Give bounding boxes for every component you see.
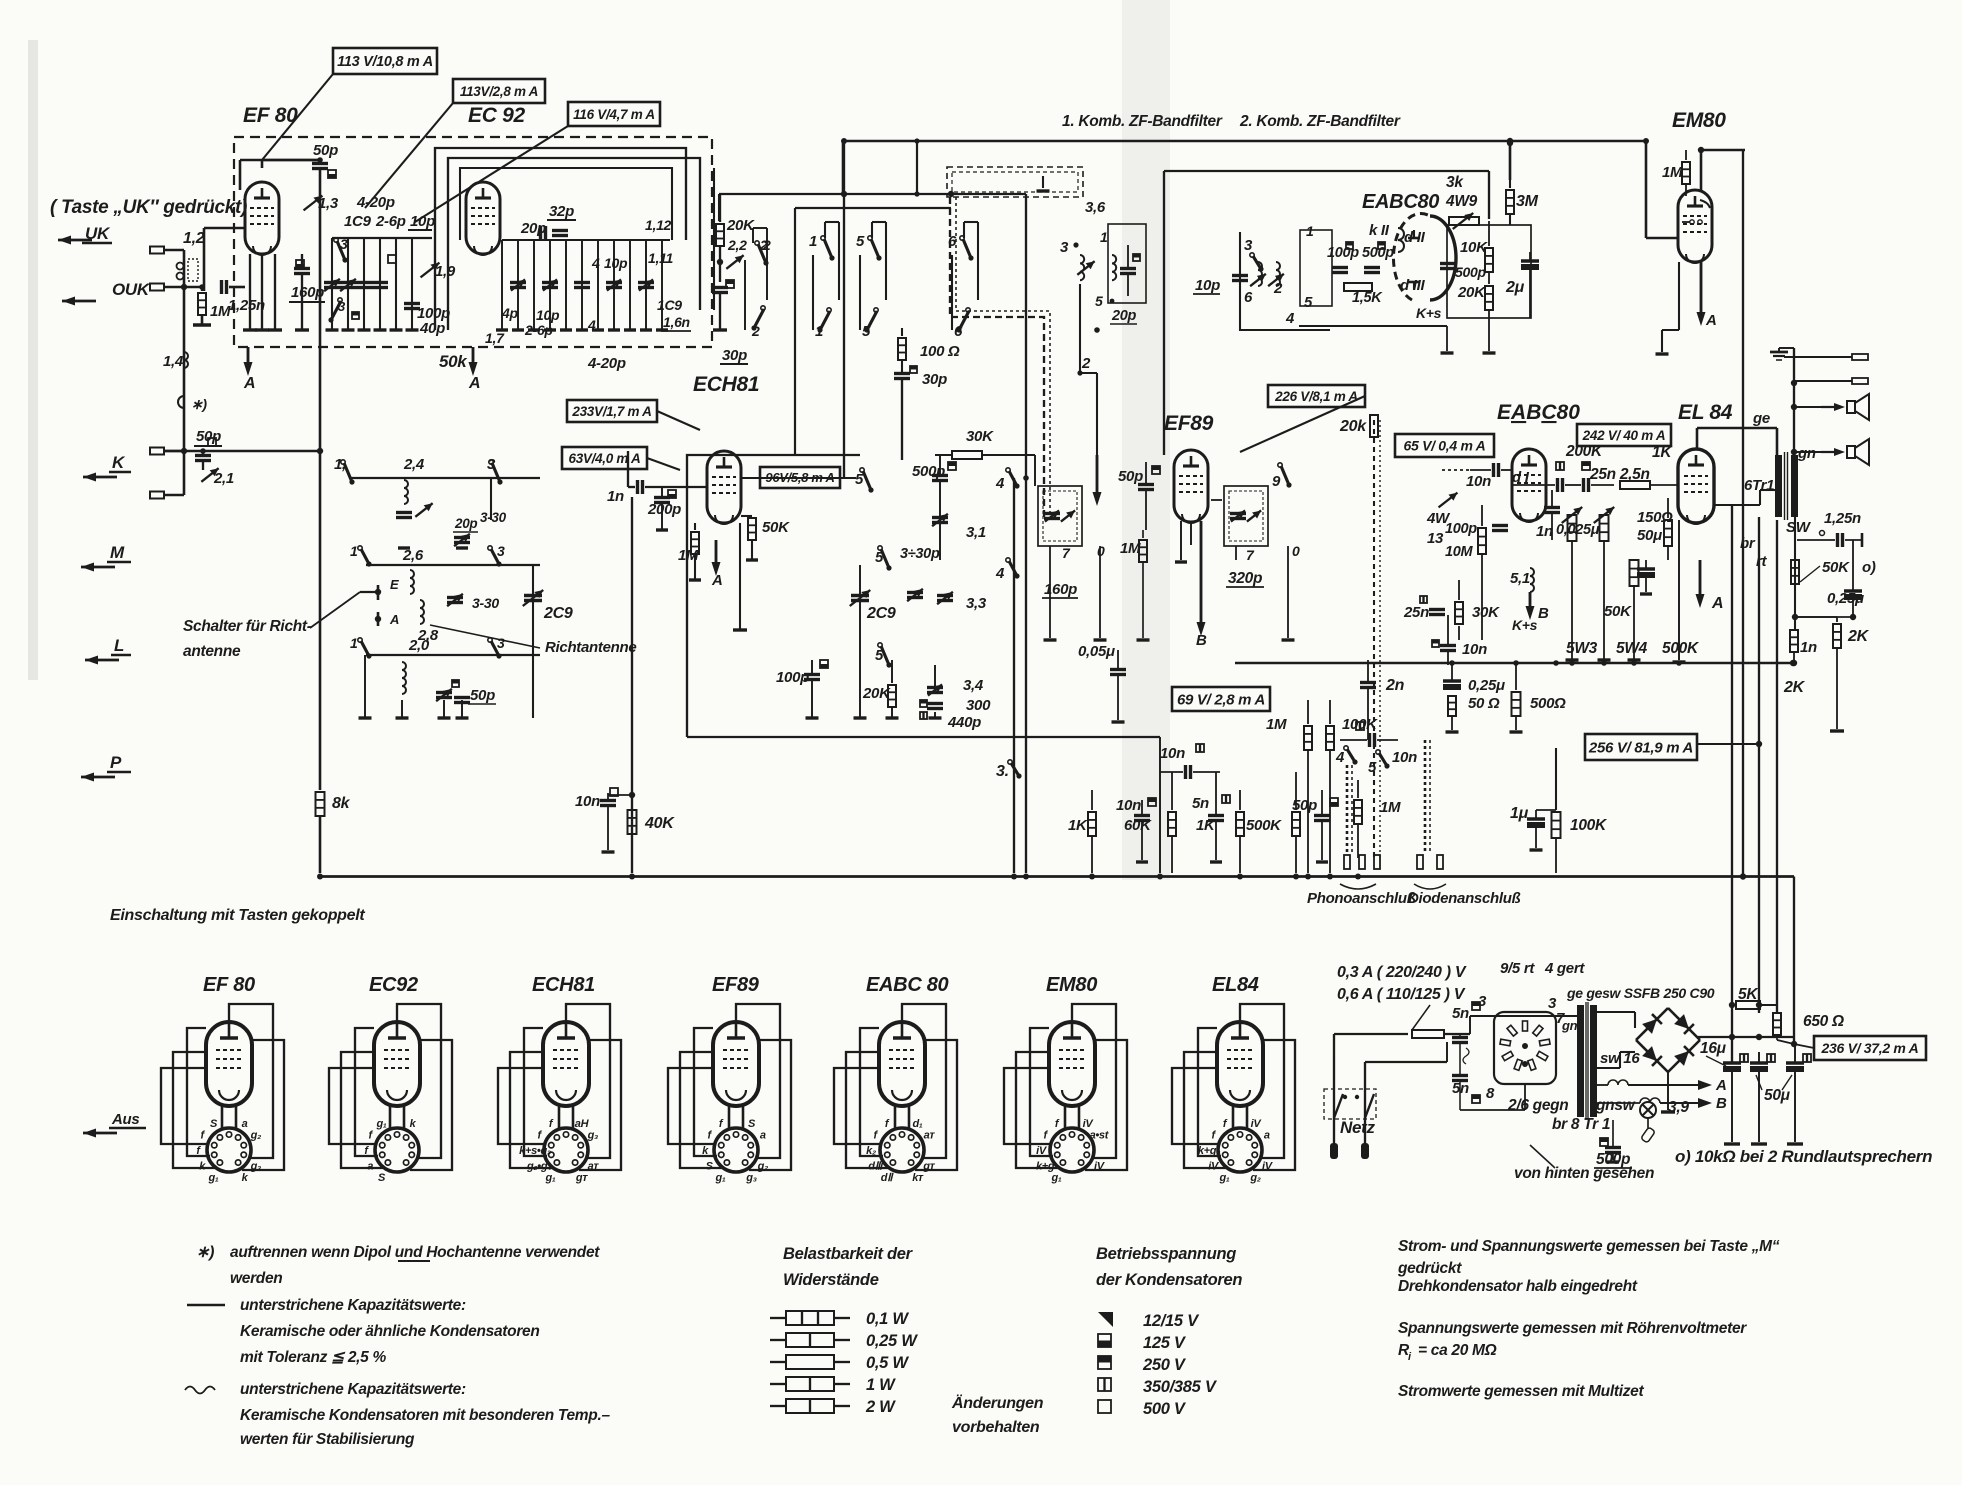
wire — [1240, 396, 1365, 452]
wire — [379, 238, 381, 330]
trimmer arrow — [304, 196, 323, 211]
svg-text:Stromwerte gemessen mit Multiz: Stromwerte gemessen mit Multizet — [1398, 1383, 1644, 1400]
wire — [1295, 836, 1297, 873]
wire — [901, 379, 903, 460]
tube ECH81 with socket diagram — [543, 1022, 589, 1106]
wire — [1459, 1034, 1461, 1037]
tube EF89 — [1174, 450, 1208, 522]
capacitor voltage marker — [1378, 242, 1385, 249]
wire — [1446, 326, 1448, 351]
capacitor — [1138, 483, 1154, 486]
junction — [717, 259, 723, 265]
svg-text:1n: 1n — [1800, 639, 1817, 656]
svg-text:3: 3 — [487, 456, 496, 473]
svg-text:EABC80: EABC80 — [1497, 401, 1580, 424]
trimmer arrow — [1594, 507, 1614, 523]
capacitor voltage marker — [388, 255, 396, 263]
wire — [752, 228, 754, 243]
wire — [1365, 1061, 1447, 1063]
junction — [1698, 147, 1704, 153]
svg-text:3-30: 3-30 — [480, 510, 507, 525]
wire — [934, 665, 936, 687]
svg-text:o): o) — [1862, 559, 1876, 576]
wire — [183, 250, 186, 495]
svg-text:10n: 10n — [1462, 641, 1487, 658]
tube ECH81 — [707, 451, 741, 523]
wire — [939, 481, 941, 560]
wire — [468, 703, 496, 705]
resistor — [1088, 812, 1096, 836]
ground — [656, 328, 668, 331]
wire — [629, 240, 631, 330]
svg-text:A: A — [1711, 595, 1723, 612]
tube EL84 — [1678, 449, 1714, 523]
capacitor — [1044, 512, 1060, 515]
svg-text:9: 9 — [1272, 473, 1281, 490]
svg-text:50 Ω: 50 Ω — [1468, 695, 1500, 712]
svg-text:500K: 500K — [1662, 640, 1700, 657]
capacitor — [220, 280, 223, 294]
trimmer arrow — [421, 263, 440, 278]
capacitor — [606, 281, 622, 284]
svg-text:10p: 10p — [604, 255, 628, 271]
svg-text:30p: 30p — [722, 347, 747, 364]
wire — [411, 238, 413, 330]
svg-text:aᴛ: aᴛ — [588, 1161, 600, 1173]
capacitor voltage marker — [1472, 1002, 1480, 1010]
capacitor — [1429, 608, 1445, 611]
svg-text:113 V/10,8 m A: 113 V/10,8 m A — [337, 54, 433, 70]
wire — [1171, 836, 1173, 873]
svg-text:300: 300 — [966, 697, 991, 714]
capacitor — [937, 594, 953, 597]
resistor — [1506, 190, 1514, 214]
svg-text:( Taste „UK″ gedrückt): ( Taste „UK″ gedrückt) — [50, 197, 247, 218]
svg-text:d III: d III — [1400, 277, 1425, 294]
ground — [295, 328, 309, 331]
svg-text:k₂: k₂ — [866, 1145, 876, 1157]
ground — [390, 328, 403, 331]
svg-text:1,25n: 1,25n — [1824, 510, 1861, 527]
box outline — [1043, 491, 1077, 541]
box outline — [1224, 486, 1268, 546]
ground — [886, 716, 899, 719]
svg-text:g₂: g₂ — [250, 1130, 261, 1142]
wire — [1240, 232, 1330, 330]
svg-text:50μ: 50μ — [1764, 1087, 1791, 1104]
junction — [1023, 475, 1029, 481]
ground — [560, 328, 572, 331]
wire — [1367, 688, 1369, 740]
svg-text:L: L — [114, 636, 124, 655]
svg-text:20K: 20K — [862, 685, 891, 702]
ground — [243, 328, 257, 331]
arrow — [83, 1132, 117, 1135]
junction — [317, 874, 323, 880]
tube EABC 80 with socket diagram — [879, 1022, 925, 1106]
svg-text:1K: 1K — [1196, 817, 1216, 834]
svg-text:gn: gn — [1797, 445, 1816, 462]
wire — [1215, 772, 1217, 815]
wire — [1650, 484, 1679, 486]
wire — [842, 141, 845, 195]
trimmer arrow — [543, 279, 557, 290]
ground — [406, 328, 419, 331]
wire — [645, 240, 647, 330]
junction — [1089, 874, 1095, 880]
coil — [1112, 255, 1116, 280]
arrow — [1529, 592, 1532, 610]
wire — [1571, 528, 1573, 640]
svg-text:236 V/ 37,2 m A: 236 V/ 37,2 m A — [1821, 1040, 1919, 1056]
coil — [410, 570, 414, 594]
resistor wattage symbol 2 W — [770, 1405, 786, 1407]
wire — [1852, 540, 1854, 591]
wire — [401, 700, 403, 718]
measurement callout box 116 V/4,7 m A — [568, 102, 660, 126]
wire — [1742, 150, 1744, 877]
ground — [1830, 729, 1844, 732]
svg-text:160p: 160p — [291, 284, 324, 301]
svg-text:1,9: 1,9 — [435, 263, 456, 280]
capacitor — [932, 516, 948, 519]
wire — [1760, 1004, 1777, 1006]
svg-text:0,25 W: 0,25 W — [866, 1332, 918, 1350]
measurement callout box 113V/2,8 m A — [453, 79, 545, 103]
wire — [1535, 828, 1537, 848]
wire — [1340, 739, 1367, 741]
capacitor voltage marker — [1222, 795, 1230, 803]
svg-text:EF 80: EF 80 — [243, 104, 298, 127]
wire — [1633, 586, 1635, 660]
wire — [1458, 580, 1460, 600]
ground — [713, 328, 727, 331]
wire — [549, 240, 551, 330]
wire — [661, 330, 691, 332]
svg-text:2,6: 2,6 — [402, 547, 424, 564]
wire — [1667, 546, 1669, 560]
svg-text:g₁: g₁ — [1219, 1172, 1230, 1184]
svg-text:20p: 20p — [1111, 308, 1137, 324]
wire — [1794, 517, 1796, 630]
svg-text:100p: 100p — [1445, 521, 1477, 537]
arrow — [85, 659, 119, 662]
svg-text:g₁: g₁ — [545, 1172, 556, 1184]
svg-text:Keramische oder ähnliche Konde: Keramische oder ähnliche Kondensatoren — [240, 1323, 540, 1340]
svg-text:256 V/ 81,9 m A: 256 V/ 81,9 m A — [1588, 739, 1693, 756]
svg-text:500p: 500p — [1455, 264, 1486, 280]
resistor — [1790, 630, 1798, 652]
wire — [694, 523, 696, 530]
wire — [1141, 800, 1143, 815]
capacitor — [447, 596, 463, 599]
svg-text:gedrückt: gedrückt — [1397, 1260, 1462, 1277]
svg-text:1M: 1M — [1662, 164, 1683, 181]
capacitor — [1134, 814, 1150, 817]
wire — [1784, 356, 1852, 358]
wire — [1408, 281, 1420, 284]
wire — [1794, 451, 1824, 453]
svg-text:1μ: 1μ — [1510, 805, 1529, 822]
svg-text:Schalter für Richt-: Schalter für Richt- — [183, 618, 312, 635]
resistor wattage symbol 0,5 W — [770, 1361, 786, 1363]
capacitor voltage marker — [726, 280, 734, 288]
svg-text:A: A — [389, 612, 399, 627]
svg-text:6: 6 — [1244, 289, 1253, 306]
switch contact — [1376, 750, 1380, 754]
wire — [1408, 237, 1420, 240]
svg-text:g₁: g₁ — [1051, 1172, 1062, 1184]
wire — [261, 160, 264, 168]
wire — [1713, 504, 1760, 506]
junction — [914, 191, 919, 196]
electrolytic capacitor — [1750, 1061, 1768, 1064]
svg-text:EM80: EM80 — [1046, 974, 1097, 996]
wire — [687, 736, 1160, 738]
svg-text:k II: k II — [1369, 222, 1390, 239]
arrow — [62, 300, 96, 303]
resistor — [748, 518, 756, 540]
junction — [1522, 1061, 1528, 1067]
wire — [843, 141, 845, 478]
svg-text:60K: 60K — [1124, 817, 1152, 834]
capacitor — [340, 281, 356, 284]
resistor — [1630, 560, 1639, 586]
svg-text:EF89: EF89 — [1164, 412, 1214, 435]
svg-text:EABC 80: EABC 80 — [866, 974, 949, 996]
wire — [1447, 615, 1449, 645]
svg-text:a•st: a•st — [1090, 1130, 1110, 1142]
wire — [1770, 351, 1788, 354]
svg-text:9/5 rt: 9/5 rt — [1500, 960, 1535, 977]
wire — [1794, 616, 1796, 618]
wire — [1793, 348, 1795, 455]
trimmer arrow — [511, 279, 525, 290]
wire — [1287, 546, 1289, 638]
svg-text:5: 5 — [1368, 759, 1377, 776]
wire — [1141, 821, 1143, 860]
wire — [916, 141, 918, 194]
wire — [1365, 1094, 1374, 1118]
capacitor voltage marker — [1098, 1400, 1111, 1413]
svg-text:2/6 gegn: 2/6 gegn — [1507, 1097, 1568, 1114]
resistor — [1412, 1030, 1444, 1038]
wire — [1620, 1051, 1635, 1053]
wire — [164, 249, 184, 252]
wire — [1451, 665, 1453, 681]
svg-text:werden: werden — [230, 1270, 282, 1287]
svg-text:0,3 A ( 220/240 ) V: 0,3 A ( 220/240 ) V — [1337, 964, 1467, 981]
resistor — [1455, 602, 1463, 624]
ground — [1510, 730, 1523, 733]
wire — [794, 208, 796, 455]
junction — [1343, 1095, 1347, 1099]
svg-text:1,7: 1,7 — [485, 330, 505, 346]
wire — [1239, 836, 1241, 873]
resistor — [1292, 812, 1300, 836]
svg-text:65 V/ 0,4 m A: 65 V/ 0,4 m A — [1404, 438, 1486, 454]
svg-text:EL 84: EL 84 — [1678, 401, 1733, 424]
wire — [1091, 836, 1093, 873]
wire — [1731, 1062, 1733, 1063]
svg-text:50p: 50p — [470, 687, 495, 704]
trimmer arrow — [607, 279, 621, 290]
wire — [240, 159, 320, 162]
junction — [375, 589, 381, 595]
capacitor — [654, 496, 670, 499]
ground — [1530, 848, 1543, 851]
capacitor voltage marker — [1740, 1054, 1748, 1062]
svg-text:auftrennen wenn Dipol und Hoch: auftrennen wenn Dipol und Hochantenne ve… — [230, 1244, 600, 1261]
svg-text:1n: 1n — [607, 488, 624, 505]
junction — [1157, 874, 1163, 880]
box outline — [1359, 855, 1365, 869]
svg-text:1,4: 1,4 — [163, 353, 184, 370]
wire — [1836, 648, 1838, 729]
wire — [1488, 310, 1490, 351]
electrolytic capacitor — [1443, 679, 1461, 682]
resistor — [1236, 812, 1244, 836]
wire — [1645, 578, 1647, 592]
resistor — [1682, 162, 1690, 184]
junction — [1676, 660, 1682, 666]
svg-text:500Ω: 500Ω — [1530, 695, 1566, 712]
switch contact — [755, 241, 759, 245]
svg-text:10n: 10n — [1392, 749, 1417, 766]
wire — [951, 255, 953, 330]
svg-text:4p: 4p — [501, 305, 518, 321]
svg-text:EABC80: EABC80 — [1362, 191, 1439, 213]
trimmer arrow — [1247, 510, 1261, 521]
wire — [1127, 274, 1129, 296]
box outline — [1324, 1089, 1376, 1119]
ground — [374, 328, 387, 331]
ground — [359, 716, 372, 719]
wire — [239, 160, 242, 190]
svg-text:gn: gn — [1561, 1018, 1578, 1033]
arrow — [83, 476, 117, 479]
svg-text:4: 4 — [1285, 310, 1295, 327]
junction — [200, 448, 206, 454]
wire — [627, 451, 629, 487]
resistor — [1326, 726, 1334, 750]
svg-text:2,2: 2,2 — [727, 237, 747, 253]
wire — [1321, 790, 1323, 815]
measurement callout box 233V/1,7 m A — [567, 400, 657, 422]
resistor wattage symbol 1 W — [770, 1383, 786, 1385]
svg-text:a: a — [367, 1161, 373, 1173]
capacitor — [1556, 478, 1559, 492]
ground — [656, 528, 668, 531]
arrow — [1699, 560, 1702, 598]
svg-text:g₁: g₁ — [715, 1172, 726, 1184]
resistor — [1512, 692, 1521, 716]
wire — [1645, 141, 1648, 238]
switch contact — [1008, 760, 1012, 764]
switch contact — [341, 460, 345, 464]
wire — [109, 471, 131, 474]
capacitor voltage marker — [452, 680, 459, 687]
svg-text:3: 3 — [497, 543, 505, 559]
wire — [1529, 252, 1531, 261]
svg-text:k+s•g₃: k+s•g₃ — [519, 1145, 551, 1157]
wire — [1451, 716, 1453, 730]
resistor — [1664, 520, 1672, 546]
wire — [901, 360, 903, 373]
junction — [1355, 1095, 1359, 1099]
circle — [1640, 1102, 1656, 1118]
svg-text:63V/4,0 m A: 63V/4,0 m A — [569, 451, 641, 466]
wire — [1501, 469, 1512, 471]
svg-text:Änderungen: Änderungen — [951, 1394, 1044, 1412]
resistor — [1485, 286, 1493, 310]
capacitor voltage marker — [668, 490, 676, 498]
svg-text:0,1 W: 0,1 W — [866, 1310, 909, 1328]
box outline — [234, 137, 712, 347]
svg-text:1: 1 — [350, 635, 358, 651]
wire — [1509, 214, 1511, 225]
wire — [565, 240, 567, 330]
svg-text:2n: 2n — [1385, 677, 1405, 694]
wire — [430, 625, 540, 648]
wire — [1700, 150, 1703, 190]
svg-text:10n: 10n — [1116, 797, 1141, 814]
svg-text:1 W: 1 W — [866, 1376, 896, 1394]
svg-text:5n: 5n — [1192, 795, 1209, 812]
resistor — [716, 224, 724, 246]
wire — [741, 515, 752, 517]
ground — [1751, 1142, 1767, 1145]
capacitor — [574, 281, 590, 284]
wire — [1776, 1035, 1778, 1040]
wire — [1413, 230, 1415, 238]
wire — [365, 103, 453, 208]
wire — [1299, 325, 1447, 327]
wire — [360, 591, 378, 593]
wire — [1430, 747, 1585, 760]
wire — [1758, 1072, 1760, 1142]
ground — [1724, 1142, 1740, 1145]
wire — [1215, 821, 1217, 860]
svg-text:4: 4 — [995, 565, 1005, 582]
svg-text:50p: 50p — [313, 142, 338, 159]
wire — [811, 660, 813, 674]
junction — [841, 191, 847, 197]
svg-text:2 W: 2 W — [865, 1398, 896, 1416]
svg-text:g₁: g₁ — [208, 1172, 219, 1184]
capacitor — [454, 536, 470, 539]
svg-text:A: A — [1715, 1077, 1727, 1094]
box outline — [1494, 1012, 1556, 1084]
wire — [1697, 427, 1777, 430]
trimmer arrow — [1045, 510, 1059, 521]
svg-text:B: B — [1196, 632, 1207, 649]
wire — [1698, 1036, 1794, 1038]
svg-text:Drehkondensator halb eingedreh: Drehkondensator halb eingedreht — [1398, 1278, 1638, 1295]
svg-text:∗): ∗) — [196, 1244, 214, 1261]
rectifier diode — [1668, 1040, 1700, 1072]
trimmer arrow — [1250, 274, 1266, 286]
svg-text:30p: 30p — [922, 371, 947, 388]
svg-text:werten für Stabilisierung: werten für Stabilisierung — [240, 1431, 415, 1448]
wire — [1760, 489, 1775, 491]
wire — [203, 228, 206, 291]
svg-text:aH: aH — [575, 1118, 590, 1130]
capacitor voltage marker — [920, 712, 927, 719]
svg-text:12/15 V: 12/15 V — [1143, 1312, 1200, 1330]
trimmer arrow — [340, 279, 356, 291]
wire — [1373, 420, 1375, 860]
